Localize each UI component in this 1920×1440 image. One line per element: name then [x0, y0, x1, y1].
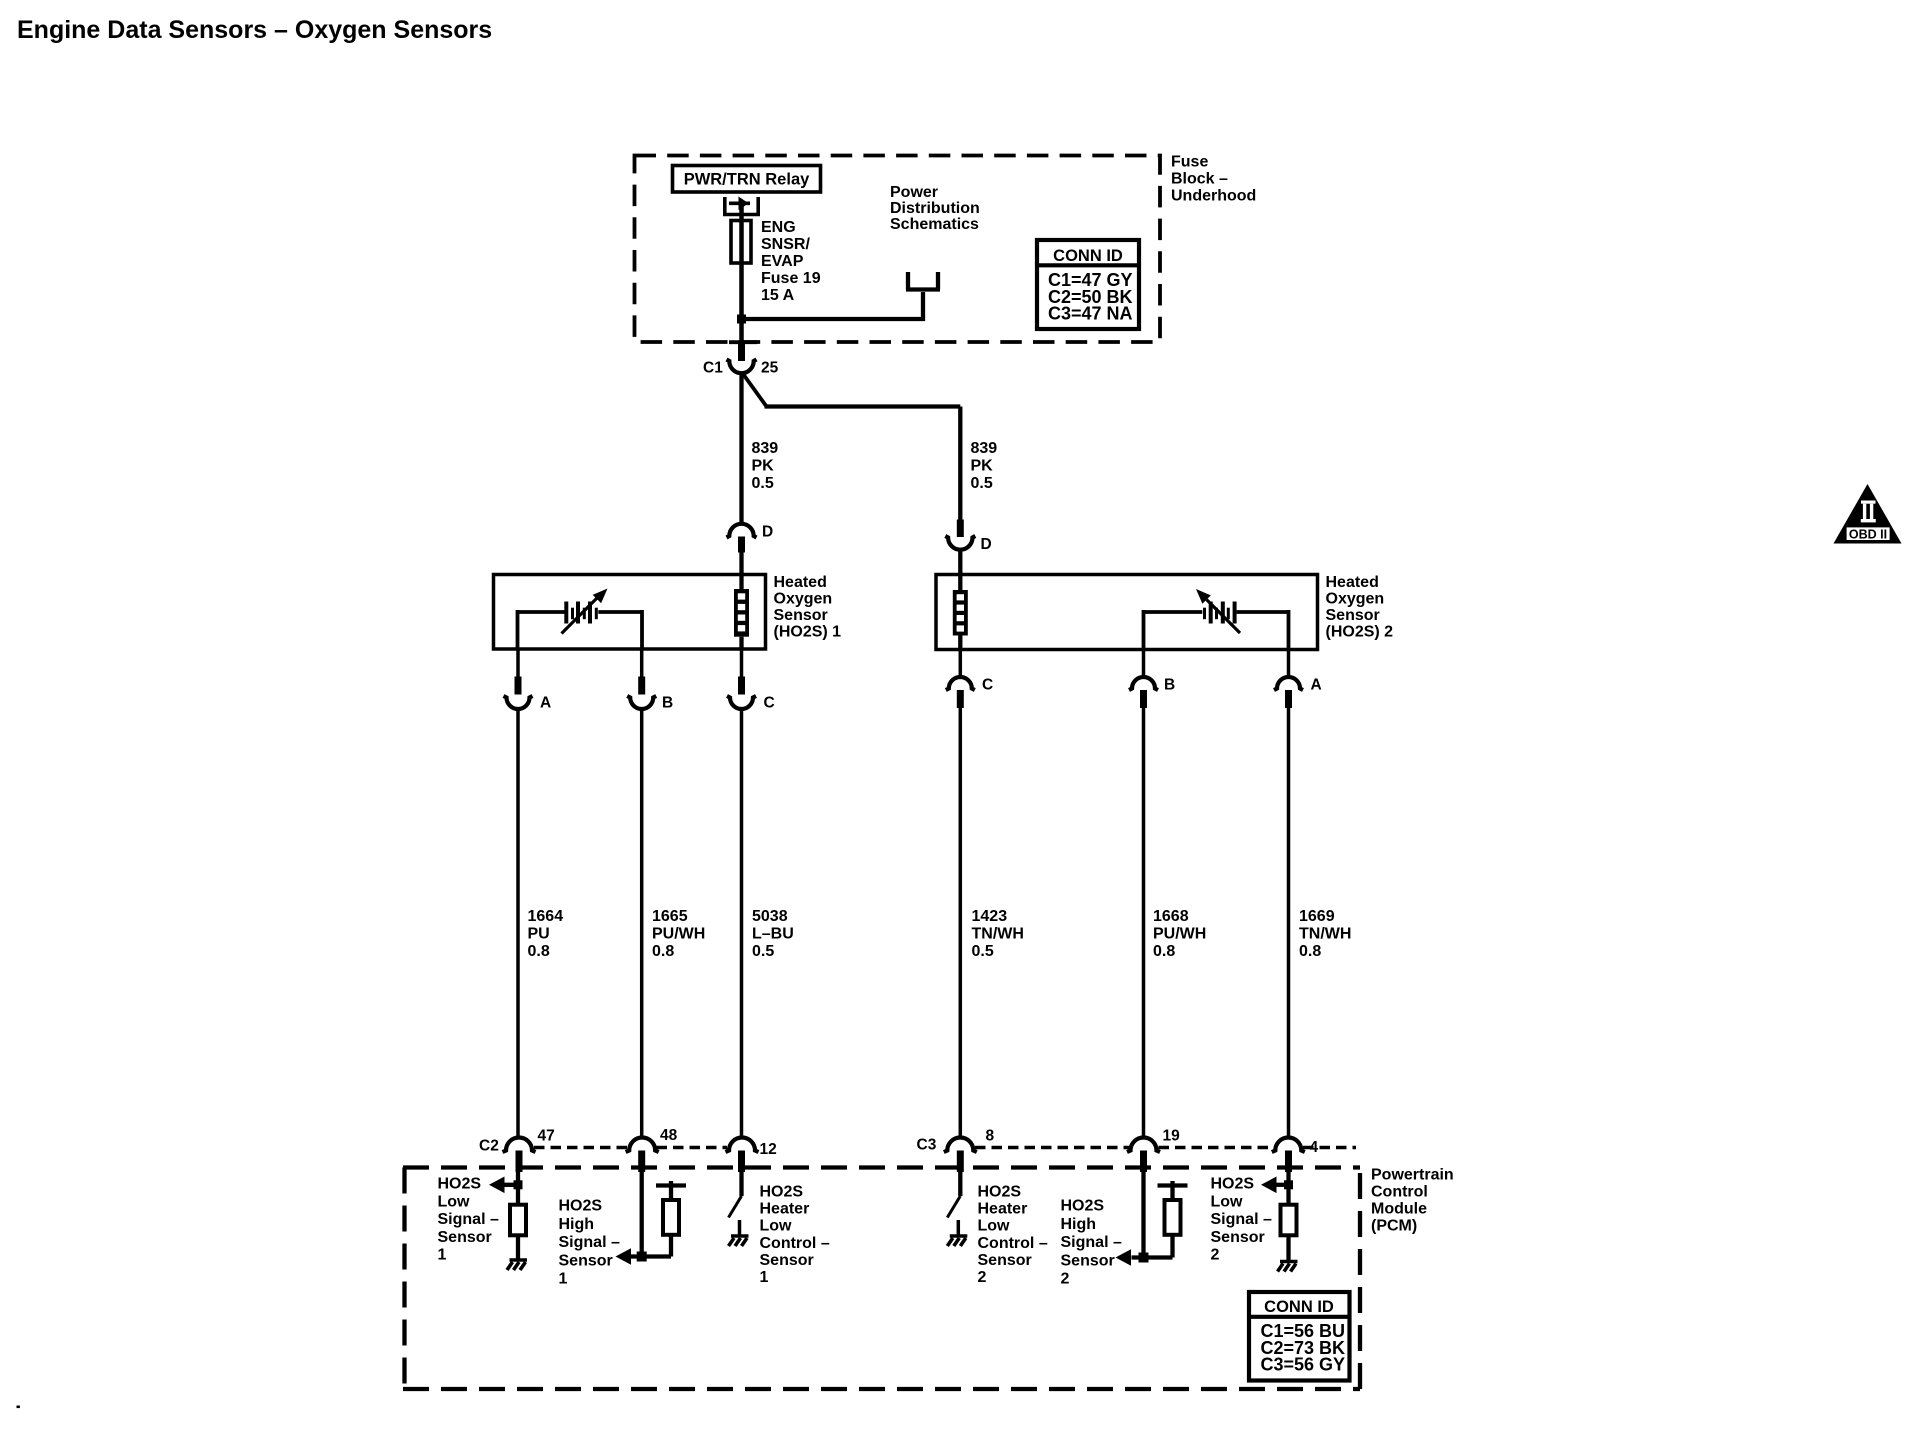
wire resistor to ground (sensor 1 low) — [516, 1235, 520, 1260]
svg-text:Engine Data Sensors – Oxygen S: Engine Data Sensors – Oxygen Sensors — [17, 16, 492, 44]
svg-text:PU/WH: PU/WH — [652, 926, 705, 943]
connector C1 pin 25: female cup — [727, 360, 757, 374]
label: HO2S High Signal - Sensor 2 — [1061, 1198, 1122, 1288]
svg-text:Distribution: Distribution — [890, 200, 980, 217]
svg-text:A: A — [540, 695, 551, 712]
svg-text:Sensor: Sensor — [760, 1252, 814, 1269]
svg-text:Module: Module — [1371, 1201, 1427, 1218]
svg-text:Block –: Block – — [1171, 171, 1228, 188]
svg-text:PU: PU — [528, 926, 550, 943]
label 839 PK 0.5 (left) — [752, 440, 779, 492]
svg-text:Sensor: Sensor — [1061, 1252, 1115, 1269]
svg-text:Sensor: Sensor — [559, 1252, 613, 1269]
svg-text:C: C — [764, 695, 775, 712]
svg-text:SNSR/: SNSR/ — [761, 236, 810, 253]
svg-text:0.5: 0.5 — [971, 475, 993, 492]
svg-text:HO2S: HO2S — [978, 1184, 1022, 1201]
label: Heated Oxygen Sensor (HO2S) 1 — [774, 574, 842, 641]
svg-text:1423: 1423 — [972, 908, 1008, 925]
svg-text:Low: Low — [1211, 1193, 1244, 1210]
svg-text:HO2S: HO2S — [1211, 1176, 1255, 1193]
relay K: PWR/TRN Relay name box — [673, 166, 821, 193]
connector row dashed link C3 — [975, 1146, 1356, 1150]
PCM box (dashed) — [403, 1168, 1360, 1390]
svg-text:Control –: Control – — [760, 1235, 830, 1252]
wire: branch diagonal at C1 — [742, 373, 767, 407]
sensor cell (variable battery) HO2S 1 — [518, 602, 643, 650]
label 1668 PU/WH 0.8 — [1153, 908, 1206, 960]
svg-text:1: 1 — [438, 1247, 447, 1264]
svg-text:839: 839 — [971, 440, 998, 457]
label: HO2S High Signal - Sensor 1 — [559, 1198, 620, 1288]
label 839 PK 0.5 (right) — [971, 440, 998, 492]
connector C2 pin 47: cup and pin — [503, 1138, 536, 1173]
connector B (HO2S 2) — [1129, 650, 1158, 709]
svg-text:Control –: Control – — [978, 1235, 1048, 1252]
ground (low signal sensor 1) — [507, 1260, 527, 1270]
label 1423 TN/WH 0.5 — [972, 908, 1024, 960]
connector C (HO2S 2) — [946, 650, 975, 709]
svg-text:C3=47 NA: C3=47 NA — [1048, 304, 1133, 324]
wire: relay to fuse — [739, 206, 744, 221]
svg-text:Signal –: Signal – — [438, 1211, 499, 1228]
svg-text:C1: C1 — [703, 360, 723, 377]
connector D (HO2S 1): cup and pin — [727, 524, 757, 575]
svg-text:0.5: 0.5 — [752, 943, 774, 960]
svg-text:(HO2S) 2: (HO2S) 2 — [1326, 624, 1394, 641]
svg-text:High: High — [1061, 1216, 1097, 1233]
svg-text:Signal –: Signal – — [559, 1234, 620, 1251]
wire 1669 TN/WH (A2 to pin 4) — [1287, 708, 1291, 1140]
wire 839 PK left (C1 to D) — [739, 374, 743, 524]
connector A (HO2S 2) — [1274, 650, 1303, 709]
svg-text:CONN ID: CONN ID — [1264, 1298, 1334, 1316]
resistor (low signal sensor 2) — [1281, 1205, 1297, 1236]
connector D (HO2S 2): pin and cup — [945, 520, 975, 576]
connector C3 pin 4: cup and pin — [1272, 1138, 1305, 1173]
svg-text:Underhood: Underhood — [1171, 188, 1256, 205]
ground (heater low control sensor 2) — [947, 1236, 967, 1246]
svg-text:1668: 1668 — [1153, 908, 1189, 925]
svg-text:0.8: 0.8 — [1153, 943, 1175, 960]
svg-text:Power: Power — [890, 184, 938, 201]
svg-text:C2: C2 — [479, 1138, 499, 1155]
svg-text:A: A — [1311, 677, 1322, 694]
svg-text:C3=56 GY: C3=56 GY — [1261, 1355, 1346, 1375]
label: Powertrain Control Module (PCM) — [1371, 1167, 1454, 1235]
svg-text:(HO2S) 1: (HO2S) 1 — [774, 624, 842, 641]
svg-text:Heater: Heater — [978, 1201, 1028, 1218]
svg-text:47: 47 — [538, 1128, 555, 1145]
svg-text:12: 12 — [760, 1141, 777, 1158]
svg-text:15 A: 15 A — [761, 287, 795, 304]
label: Heated Oxygen Sensor (HO2S) 2 — [1326, 574, 1394, 641]
svg-text:Oxygen: Oxygen — [774, 591, 833, 608]
svg-text:Schematics: Schematics — [890, 216, 979, 233]
label 1669 TN/WH 0.8 — [1299, 908, 1351, 960]
svg-text:2: 2 — [1061, 1271, 1070, 1288]
svg-text:1: 1 — [760, 1269, 769, 1286]
svg-text:TN/WH: TN/WH — [972, 926, 1024, 943]
wire 1664 PU (A1 to pin 47) — [516, 709, 520, 1140]
sensor cell (variable battery) HO2S 2 — [1144, 602, 1289, 650]
svg-text:Heated: Heated — [774, 574, 827, 591]
arrow (variable) HO2S 2 — [1196, 589, 1240, 633]
svg-text:Low: Low — [438, 1193, 471, 1210]
heater element HO2S 1 — [734, 575, 749, 650]
resistor (high signal sensor 2) — [1165, 1200, 1181, 1235]
connector A (HO2S 1) — [504, 649, 533, 709]
svg-text:Sensor: Sensor — [1326, 607, 1380, 624]
svg-text:C: C — [982, 677, 993, 694]
HO2S 2 box — [936, 575, 1318, 650]
relay contact symbol — [723, 197, 760, 215]
svg-text:PK: PK — [752, 458, 775, 475]
svg-text:L–BU: L–BU — [752, 926, 794, 943]
svg-text:Oxygen: Oxygen — [1326, 591, 1385, 608]
svg-text:5038: 5038 — [752, 908, 788, 925]
svg-text:C3: C3 — [917, 1137, 937, 1154]
svg-text:0.8: 0.8 — [528, 943, 550, 960]
wire 5038 L-BU (C1 to pin 12) — [740, 709, 744, 1140]
OBD II marker triangle — [1834, 484, 1902, 544]
wire 839 PK right: vertical run — [958, 407, 962, 521]
page dot — [17, 1406, 20, 1409]
svg-text:8: 8 — [986, 1128, 995, 1145]
wire: fuse to junction — [739, 262, 744, 321]
svg-text:B: B — [1164, 677, 1175, 694]
label: HO2S Low Signal - Sensor 2 — [1211, 1176, 1272, 1264]
branch pin8: HO2S heater low control sensor 2 (driver switch) — [947, 1172, 960, 1236]
conn id table (PCM) — [1249, 1292, 1350, 1381]
label 1664 PU 0.8 — [528, 908, 564, 960]
svg-text:1665: 1665 — [652, 908, 688, 925]
svg-text:HO2S: HO2S — [760, 1184, 804, 1201]
HO2S 1 box — [494, 575, 766, 650]
wire 839 PK right: horizontal run — [765, 404, 961, 408]
svg-text:Sensor: Sensor — [978, 1252, 1032, 1269]
label 1665 PU/WH 0.8 — [652, 908, 705, 960]
svg-text:HO2S: HO2S — [1061, 1198, 1105, 1215]
svg-text:4: 4 — [1310, 1139, 1319, 1156]
label: HO2S Heater Low Control - Sensor 1 — [760, 1184, 830, 1287]
resistor (high signal sensor 1) — [663, 1200, 679, 1235]
svg-text:0.5: 0.5 — [972, 943, 994, 960]
svg-text:Control: Control — [1371, 1184, 1428, 1201]
svg-text:Low: Low — [978, 1218, 1011, 1235]
wire resistor to ground (sensor 2 low) — [1286, 1235, 1290, 1261]
svg-text:25: 25 — [761, 360, 779, 377]
svg-text:HO2S: HO2S — [438, 1176, 482, 1193]
pull-up bar (high signal sensor 2) — [1158, 1181, 1188, 1200]
wire 1665 PU/WH (B1 to pin 48) — [640, 709, 644, 1140]
svg-text:2: 2 — [978, 1269, 987, 1286]
svg-text:PWR/TRN Relay: PWR/TRN Relay — [684, 171, 810, 189]
svg-text:48: 48 — [660, 1127, 678, 1144]
label: HO2S Heater Low Control - Sensor 2 — [978, 1184, 1048, 1287]
svg-text:(PCM): (PCM) — [1371, 1218, 1417, 1235]
svg-text:Signal –: Signal – — [1061, 1234, 1122, 1251]
svg-text:Sensor: Sensor — [1211, 1229, 1265, 1246]
connector row dashed link C2 — [534, 1146, 727, 1150]
wire: junction through box edge to C1 — [739, 321, 744, 344]
branch pin48: HO2S high signal sensor 1 — [616, 1172, 672, 1265]
fuse block underhood box (dashed) — [635, 156, 1161, 343]
fuse ENG SNSR/EVAP Fuse 19 — [731, 221, 751, 264]
ground (low signal sensor 2) — [1278, 1262, 1298, 1272]
svg-text:OBD II: OBD II — [1849, 527, 1887, 541]
svg-text:0.5: 0.5 — [752, 475, 774, 492]
wire 1668 PU/WH (B2 to pin 19) — [1142, 708, 1146, 1140]
branch pin19: HO2S high signal sensor 2 — [1116, 1172, 1173, 1266]
svg-text:1669: 1669 — [1299, 908, 1335, 925]
connector C2 pin 48: cup and pin — [626, 1138, 659, 1173]
heater element HO2S 2 — [953, 575, 968, 650]
branch pin4: HO2S low signal sensor 2 — [1261, 1172, 1293, 1205]
svg-text:Fuse: Fuse — [1171, 154, 1208, 171]
ground (heater low control sensor 1) — [729, 1236, 749, 1246]
svg-text:Signal –: Signal – — [1211, 1211, 1272, 1228]
connector C (HO2S 1) — [727, 649, 756, 709]
connector C3 pin 19: cup and pin — [1127, 1138, 1160, 1173]
resistor (low signal sensor 1) — [510, 1205, 526, 1236]
svg-text:TN/WH: TN/WH — [1299, 926, 1351, 943]
svg-text:CONN ID: CONN ID — [1053, 247, 1123, 265]
svg-text:Heated: Heated — [1326, 574, 1379, 591]
branch pin47: HO2S low signal sensor 1 — [489, 1172, 523, 1205]
svg-text:ENG: ENG — [761, 219, 796, 236]
svg-text:EVAP: EVAP — [761, 253, 804, 270]
svg-text:PU/WH: PU/WH — [1153, 926, 1206, 943]
wire: junction to off-page stub — [742, 292, 924, 319]
svg-text:High: High — [559, 1216, 595, 1233]
junction: power feed node — [737, 315, 746, 324]
svg-text:D: D — [981, 536, 992, 553]
conn id table (fuse block) — [1037, 240, 1139, 329]
svg-text:Sensor: Sensor — [774, 607, 828, 624]
connector C2 pin 12: cup and pin — [726, 1138, 759, 1173]
svg-text:839: 839 — [752, 440, 779, 457]
svg-text:0.8: 0.8 — [1299, 943, 1321, 960]
branch pin12: HO2S heater low control sensor 1 (driver switch) — [729, 1172, 742, 1236]
svg-text:Sensor: Sensor — [438, 1229, 492, 1246]
connector C1 pin 25: male pin — [729, 340, 757, 344]
svg-text:Heater: Heater — [760, 1201, 810, 1218]
svg-text:1664: 1664 — [528, 908, 564, 925]
svg-text:HO2S: HO2S — [559, 1198, 603, 1215]
svg-text:D: D — [762, 524, 773, 541]
arrow (variable) HO2S 1 — [562, 589, 608, 634]
svg-text:Low: Low — [760, 1218, 793, 1235]
label: HO2S Low Signal - Sensor 1 — [438, 1176, 499, 1264]
svg-text:19: 19 — [1163, 1128, 1181, 1145]
svg-text:Fuse 19: Fuse 19 — [761, 270, 821, 287]
svg-text:1: 1 — [559, 1271, 568, 1288]
label: Power Distribution Schematics — [890, 184, 980, 233]
pull-up bar (high signal sensor 1) — [656, 1181, 686, 1200]
svg-text:Powertrain: Powertrain — [1371, 1167, 1454, 1184]
label: Fuse Block - Underhood — [1171, 154, 1256, 205]
connector B (HO2S 1) — [627, 649, 656, 709]
label: ENG SNSR/EVAP Fuse 19 15 A — [761, 219, 821, 304]
label 5038 L-BU 0.5 — [752, 908, 794, 960]
connector C3 pin 8: cup and pin — [944, 1138, 977, 1173]
svg-text:0.8: 0.8 — [652, 943, 674, 960]
wire 1423 TN/WH (C2 to pin 8) — [959, 708, 963, 1140]
svg-text:PK: PK — [971, 458, 994, 475]
off-page connector stub (power distribution) — [906, 272, 940, 290]
svg-text:2: 2 — [1211, 1247, 1220, 1264]
svg-text:B: B — [662, 695, 673, 712]
